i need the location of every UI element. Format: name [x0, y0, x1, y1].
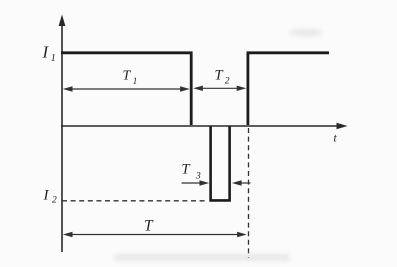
- svg-text:T: T: [123, 69, 132, 84]
- svg-text:3: 3: [195, 172, 201, 182]
- svg-text:2: 2: [225, 77, 230, 87]
- waveform: reverse current pulse down to I2: [209, 126, 231, 200]
- svg-text:1: 1: [51, 53, 56, 64]
- dimension arrows T3 (reverse pulse width, pointing inward): [182, 180, 251, 185]
- svg-text:T: T: [215, 68, 224, 84]
- waveform: rising edge and second forward pulse at I1: [248, 53, 329, 125]
- dimension arrow T2 (off interval width): [193, 86, 246, 91]
- svg-text:T: T: [182, 162, 191, 178]
- waveform: forward current pulse at level I1, drop to zero: [61, 53, 191, 125]
- svg-text:1: 1: [133, 76, 138, 86]
- horizontal axis (time axis): [61, 123, 348, 129]
- svg-text:2: 2: [52, 196, 57, 206]
- dashed vertical line marking end of period T: [248, 128, 250, 258]
- svg-text:T: T: [144, 218, 154, 235]
- dimension arrow T1 (forward pulse width): [63, 86, 190, 91]
- dashed level line I2: [62, 200, 207, 202]
- faint cropped caption smudge bottom: [115, 254, 290, 261]
- vertical axis (current axis): [59, 15, 66, 253]
- svg-text:I: I: [43, 188, 50, 204]
- dimension arrow T (full period): [63, 232, 247, 237]
- faint scan smudge top right: [289, 29, 323, 37]
